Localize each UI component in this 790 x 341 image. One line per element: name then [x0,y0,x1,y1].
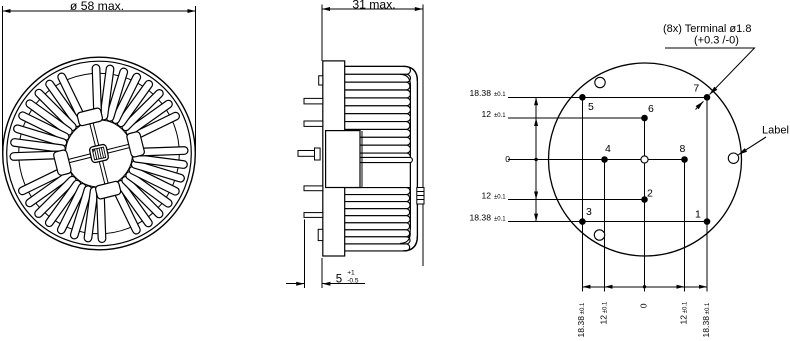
front view terminal arms (cross) [105,144,131,153]
dimension 5mm extension line right [321,258,323,288]
svg-text:±0.1: ±0.1 [494,92,506,98]
svg-text:±0.1: ±0.1 [494,113,506,119]
svg-text:6: 6 [648,103,654,115]
svg-text:31 max.: 31 max. [352,0,395,12]
dimension 31max line [322,8,423,10]
dimension ø58 line [3,10,196,12]
terminal note leader [665,48,755,95]
bottom view hole top-left [595,77,605,87]
dimension 5mm extension line left [304,220,306,289]
side view core gap [346,163,409,187]
svg-text:0: 0 [505,154,510,164]
side view bracket [326,131,360,188]
bottom view row grid lines [508,96,707,98]
bottom view hole bottom-left [594,230,604,240]
svg-text:1: 1 [695,209,701,221]
terminal pin 2 [641,196,648,203]
svg-text:Label: Label [762,125,789,137]
svg-text:2: 2 [647,187,653,199]
terminal pin 7 [704,94,711,101]
bottom view column grid lines [581,97,583,291]
front view rim inner circle [7,61,192,246]
svg-text:4: 4 [605,143,611,155]
side view 31max extension line left [321,5,323,62]
front view hub inner circle [66,120,133,187]
terminal pin 4 [601,156,608,163]
svg-text:18.38: 18.38 [469,88,491,98]
svg-text:5: 5 [336,274,342,286]
svg-text:+1: +1 [347,270,355,277]
side view 31max extension line right [422,5,424,267]
left chain dimension line [535,97,537,221]
svg-text:-0.5: -0.5 [347,278,359,285]
side view stub top [319,76,323,85]
side view top group last wire [346,157,413,162]
side view pin d [304,186,323,191]
svg-text:(+0.3 /-0): (+0.3 /-0) [694,35,739,47]
front view center core square [89,144,109,163]
label leader [738,137,766,155]
terminal pin 6 [641,115,648,122]
front view hub outer circle [58,112,141,195]
svg-text:ø 58 max.: ø 58 max. [70,0,124,13]
terminal pin 3 [579,218,586,225]
svg-text:8: 8 [680,143,686,155]
bottom view label hole [728,153,738,163]
side view pin e [304,213,323,218]
front view winding fingers (4 groups of 8) [128,111,181,142]
dimension ø58 extension line right [195,6,197,151]
front view core outer circle [19,73,180,234]
side view bracket edge line [361,131,363,187]
side view body outline [345,66,418,251]
side view pin b [304,121,323,126]
side view rim inner line [400,74,410,244]
front view outer circle [3,57,196,250]
terminal note inner arrow [696,101,704,109]
svg-text:7: 7 [693,83,699,95]
bottom view outline circle [549,63,742,256]
side view stub bottom [318,229,323,240]
svg-text:±0.1: ±0.1 [494,216,506,222]
svg-text:12: 12 [481,191,491,201]
terminal pin 8 [681,156,688,163]
dimension ø58 extension line left [2,6,4,151]
side view pin a [304,98,323,104]
svg-text:0: 0 [638,303,648,308]
terminal pin 5 [579,94,586,101]
side view right terminal block [417,188,424,205]
svg-text:18.38: 18.38 [469,212,491,222]
side view header plate [323,61,345,256]
front view terminal pads [126,131,145,158]
dimension 5mm arrows [286,283,304,285]
side view winding bars [345,66,411,74]
terminal pin 1 [704,218,711,225]
svg-text:5: 5 [588,101,594,113]
bottom chain dimension line [582,286,707,288]
side view pin c [298,151,315,157]
side view wire wrap curves [400,74,410,85]
svg-text:3: 3 [586,206,592,218]
bottom view center hole [641,156,648,163]
svg-text:(8x) Terminal ø1.8: (8x) Terminal ø1.8 [663,23,751,35]
svg-text:±0.1: ±0.1 [494,195,506,201]
svg-text:12: 12 [481,109,491,119]
